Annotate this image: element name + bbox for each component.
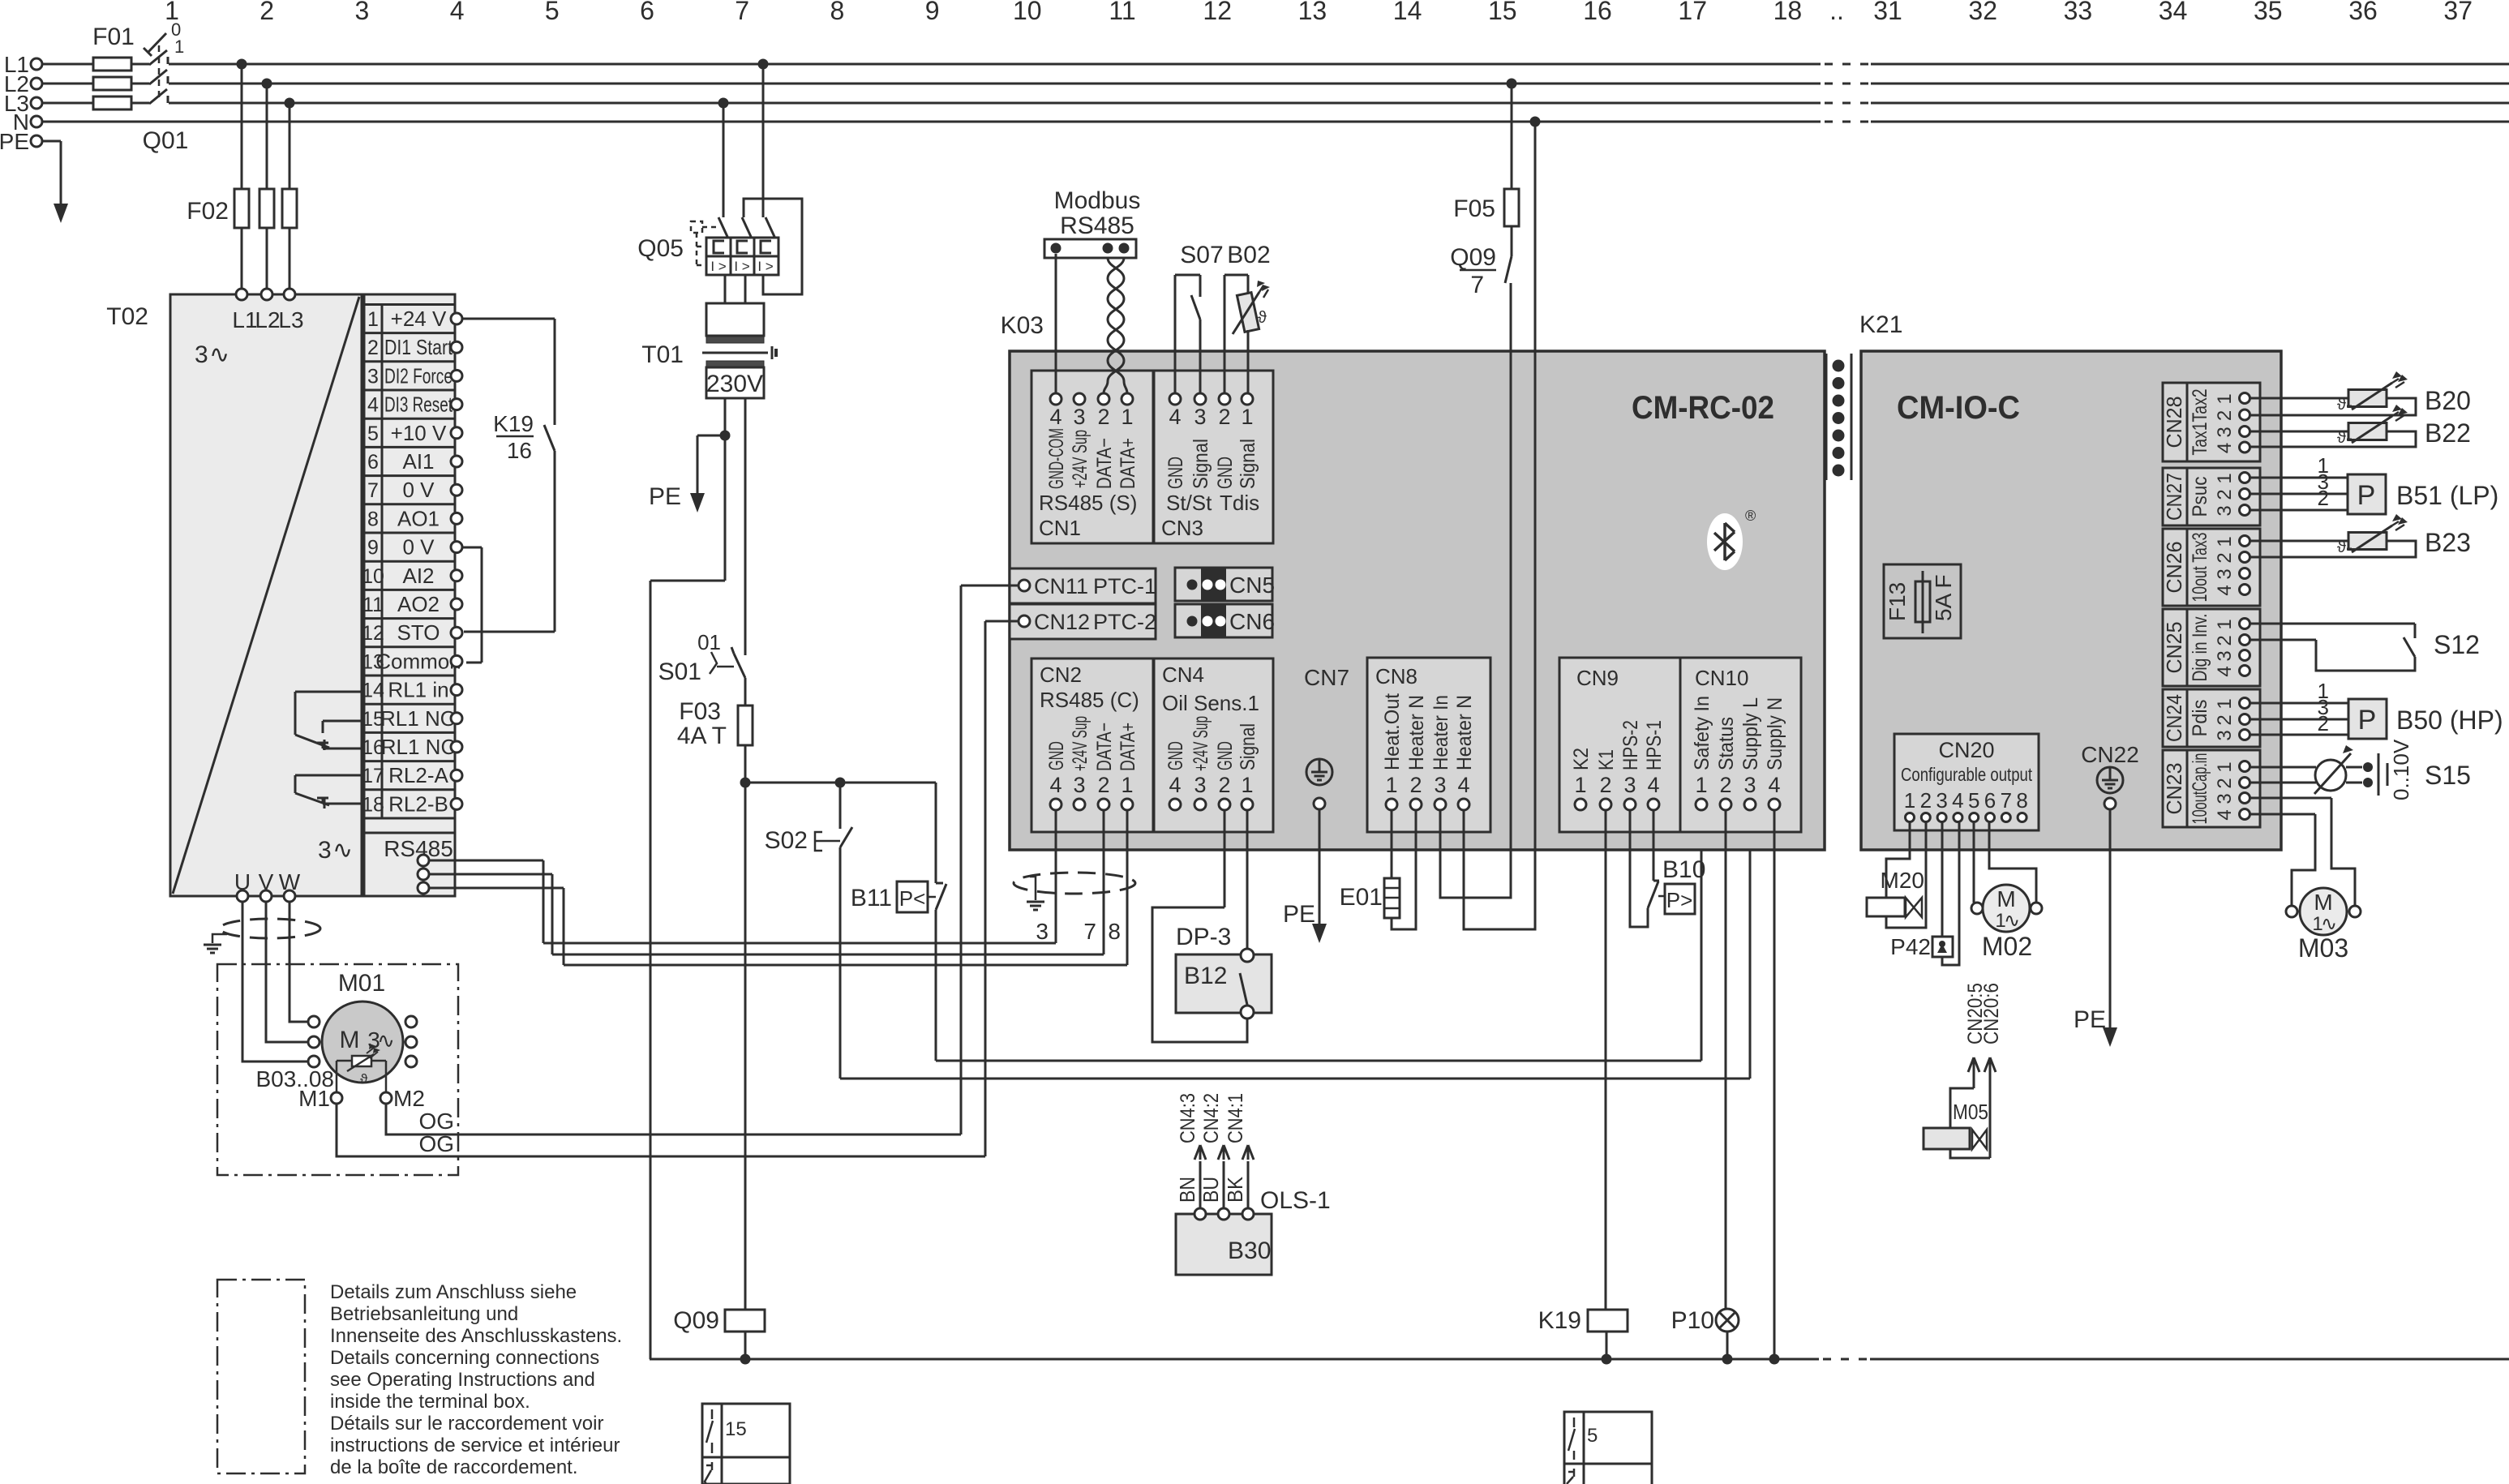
fuse F02 a	[234, 189, 249, 228]
motor M03 wiring CN23-3	[2250, 797, 2331, 800]
junction on L2	[262, 79, 272, 89]
breaker Q05 blades	[718, 217, 728, 238]
motor M1 M2 terminals	[331, 1092, 342, 1104]
svg-text:CN9: CN9	[1576, 666, 1619, 690]
svg-text:see Operating Instructions and: see Operating Instructions and	[330, 1369, 595, 1391]
svg-text:1: 1	[2214, 536, 2236, 547]
svg-text:B20: B20	[2425, 386, 2471, 415]
svg-text:Pdis: Pdis	[2189, 700, 2211, 737]
svg-text:4A T: 4A T	[677, 723, 727, 749]
wire P42 to CN20-4	[1942, 822, 1959, 965]
svg-text:K19: K19	[493, 411, 534, 436]
connector CN25 terminals	[2240, 619, 2250, 629]
svg-text:3: 3	[2214, 505, 2236, 516]
connector CN20 box	[1894, 734, 2039, 830]
svg-text:1: 1	[2214, 473, 2236, 483]
svg-text:3: 3	[1073, 773, 1085, 797]
CN7 earth symbol	[1306, 759, 1332, 785]
svg-text:de la boîte de raccordement.: de la boîte de raccordement.	[330, 1456, 578, 1478]
wire Q09 coil to bus	[744, 1332, 747, 1359]
fuse F01 L1	[93, 58, 131, 71]
junction Supply N bus	[1769, 1354, 1780, 1365]
svg-text:2: 2	[1218, 773, 1230, 797]
svg-text:2: 2	[2214, 552, 2236, 563]
wire CN8-4 Heater N to N bus	[1464, 122, 1535, 929]
coil Q09	[725, 1310, 765, 1332]
svg-text:1: 1	[1695, 773, 1707, 797]
connector CN28 block	[2163, 383, 2260, 461]
wire T01 secondary left	[724, 398, 727, 435]
svg-text:3: 3	[1194, 405, 1206, 429]
node L1 bus	[42, 63, 149, 66]
svg-text:K03: K03	[1001, 312, 1044, 339]
sensor B23 wiring	[2250, 540, 2348, 543]
svg-text:9: 9	[925, 0, 940, 25]
svg-text:..: ..	[1829, 0, 1844, 25]
svg-text:+24 V: +24 V	[391, 307, 447, 331]
transformer T01 primary	[706, 303, 764, 336]
svg-text:CN1: CN1	[1039, 516, 1081, 540]
M05 arrows	[1973, 1074, 1975, 1088]
motor enclosure dash-dot box	[217, 964, 458, 1175]
wire CN22 to PE arrow	[2109, 809, 2112, 1028]
svg-text:T01: T01	[641, 341, 684, 368]
pressure switch B11 box	[897, 881, 928, 912]
CN22 terminal	[2104, 798, 2116, 809]
svg-text:Betriebsanleitung und: Betriebsanleitung und	[330, 1303, 518, 1325]
motor M03 wiring CN23-4	[2250, 813, 2315, 816]
svg-text:5: 5	[1587, 1425, 1598, 1447]
solenoid M05 wiring	[1950, 1088, 1974, 1128]
svg-text:CN20: CN20	[1938, 738, 1994, 762]
svg-text:ϑ: ϑ	[1258, 309, 1267, 327]
T02 terminal rows	[364, 303, 455, 306]
svg-text:GND: GND	[1214, 741, 1237, 770]
svg-text:B02: B02	[1227, 242, 1270, 268]
svg-text:4: 4	[1952, 788, 1963, 813]
svg-text:230V: 230V	[706, 371, 763, 397]
svg-text:3: 3	[355, 0, 370, 25]
wire 7 to T02 RS485	[551, 874, 554, 954]
connector CN3 box	[1154, 371, 1273, 543]
CN7 terminal	[1314, 798, 1325, 809]
wire 8 to T02 RS485	[563, 888, 565, 965]
svg-text:B30: B30	[1228, 1237, 1271, 1264]
wire L3 to Q05	[718, 98, 729, 109]
wire CN10-2 Status to P10	[1725, 810, 1727, 1310]
svg-text:CN6: CN6	[1229, 609, 1275, 634]
wire CN8-3 Heater In to Q09	[1440, 283, 1511, 898]
wire B11 box link	[928, 896, 936, 899]
svg-text:PE: PE	[2074, 1006, 2106, 1033]
oil switch B12 contact	[1241, 949, 1254, 962]
connector CN20 terminals	[1906, 813, 1915, 822]
svg-text:M: M	[2314, 890, 2332, 915]
connector CN11 terminal	[1019, 580, 1030, 591]
svg-text:1: 1	[1241, 405, 1253, 429]
fuse F01 L2	[93, 77, 131, 90]
svg-text:∿: ∿	[2321, 913, 2337, 935]
setpoint S15 dots	[2363, 762, 2373, 772]
svg-text:CN3: CN3	[1161, 516, 1203, 540]
connector CN8 terminals	[1386, 799, 1397, 810]
svg-text:2: 2	[259, 0, 274, 25]
connector CN4 box	[1154, 658, 1273, 832]
svg-text:CN8: CN8	[1375, 664, 1417, 688]
motor M02 body	[1983, 885, 2030, 932]
svg-text:AI1: AI1	[402, 449, 434, 474]
connector CN2 box	[1031, 658, 1153, 832]
relay contact RL2	[295, 774, 362, 777]
wire F03 down	[744, 745, 747, 1359]
svg-text:RL1 NO: RL1 NO	[380, 706, 457, 731]
svg-text:32: 32	[1968, 0, 1997, 25]
junction K19 bus	[1602, 1354, 1612, 1365]
sensor B02 wiring	[1224, 275, 1226, 393]
svg-text:4: 4	[450, 0, 465, 25]
svg-text:DATA+: DATA+	[1117, 438, 1139, 489]
fuse F02 c	[282, 189, 297, 228]
svg-text:7: 7	[735, 0, 749, 25]
svg-text:4: 4	[1049, 405, 1061, 429]
svg-text:CN4:1: CN4:1	[1224, 1093, 1247, 1143]
wire CN2-1 DATA+ down	[1126, 810, 1129, 965]
svg-text:B51 (LP): B51 (LP)	[2396, 481, 2498, 510]
svg-text:S15: S15	[2425, 761, 2471, 790]
sensor B22	[2348, 423, 2387, 440]
svg-text:BN: BN	[1175, 1177, 1199, 1203]
relay contact RL1	[295, 691, 362, 693]
solenoid M20 valve	[1906, 898, 1914, 917]
svg-text:4: 4	[1457, 773, 1469, 797]
wire M2 to CN11 (OG upper)	[386, 1104, 961, 1134]
svg-text:RS485 (S): RS485 (S)	[1039, 491, 1137, 515]
svg-text:PTC-2: PTC-2	[1093, 610, 1156, 634]
wire B12 loop to CN4-2	[1152, 907, 1247, 1042]
svg-text:ϑ: ϑ	[360, 1071, 368, 1087]
svg-text:2: 2	[2318, 486, 2329, 510]
T02 RS485 terminals	[418, 855, 429, 866]
wire 0V to Common bracket	[462, 547, 482, 549]
connector CN26 block	[2163, 529, 2260, 606]
svg-text:L3: L3	[278, 307, 303, 332]
jumper CN6 contents	[1201, 606, 1226, 637]
svg-text:S07: S07	[1180, 242, 1223, 268]
svg-text:2: 2	[1097, 405, 1109, 429]
svg-text:Tax1Tax2: Tax1Tax2	[2189, 389, 2211, 456]
svg-text:18: 18	[362, 793, 384, 816]
connector CN11 box	[1010, 568, 1156, 603]
svg-text:GND-COM: GND-COM	[1045, 428, 1068, 489]
svg-text:2: 2	[1097, 773, 1109, 797]
svg-text:+24V Sup: +24V Sup	[1069, 430, 1092, 488]
svg-text:S01: S01	[658, 658, 701, 685]
svg-text:RS485: RS485	[1060, 212, 1134, 239]
svg-text:17: 17	[1678, 0, 1707, 25]
wire L2 drop to T02	[266, 84, 268, 290]
svg-text:0 V: 0 V	[402, 478, 435, 502]
sensor B23	[2348, 533, 2387, 550]
svg-text:4: 4	[1647, 773, 1659, 797]
breaker Q05 thermal hooks	[714, 241, 724, 253]
terminal circles L1 L2 L3 N PE	[31, 58, 42, 70]
connector CN23 block	[2163, 750, 2260, 827]
svg-text:2: 2	[1409, 773, 1422, 797]
wire +24V to K19 contact	[462, 318, 555, 320]
svg-text:Q01: Q01	[143, 127, 189, 154]
svg-text:1: 1	[1121, 773, 1133, 797]
svg-text:DATA+: DATA+	[1117, 723, 1139, 771]
svg-text:M01: M01	[338, 970, 385, 997]
svg-text:OG: OG	[418, 1131, 454, 1156]
twisted pair Modbus to CN1	[1104, 258, 1124, 393]
contact table K19	[1564, 1412, 1652, 1484]
connector CN3 terminals	[1169, 393, 1181, 405]
svg-text:3: 3	[2214, 427, 2236, 437]
svg-text:4: 4	[2214, 809, 2236, 820]
svg-text:16: 16	[507, 438, 532, 463]
oil switch B12 box	[1176, 954, 1272, 1013]
svg-text:9: 9	[367, 537, 379, 560]
heater E01 body	[1384, 878, 1400, 918]
T02 terminal strip body	[364, 294, 455, 896]
shield ground CN2	[1030, 877, 1036, 900]
svg-text:K2: K2	[1570, 748, 1593, 770]
switch S01	[734, 654, 745, 678]
wire S01 to F03	[744, 678, 747, 706]
svg-text:Details concerning connections: Details concerning connections	[330, 1347, 599, 1369]
svg-text:I >: I >	[757, 259, 773, 274]
svg-text:14: 14	[362, 680, 384, 702]
svg-text:1: 1	[1574, 773, 1586, 797]
svg-text:3: 3	[367, 365, 379, 388]
svg-text:M: M	[1996, 886, 2015, 911]
connector CN1 box	[1031, 371, 1153, 543]
switch S12 wiring	[2250, 623, 2415, 625]
svg-text:M: M	[340, 1027, 360, 1053]
wire M20 to CN20-2	[1886, 822, 1926, 928]
svg-text:+10 V: +10 V	[391, 421, 447, 445]
motor M02 terminals	[1971, 903, 1983, 914]
switch S02	[840, 827, 852, 847]
sensor B22 wiring	[2250, 431, 2348, 433]
junction on L1 at col2	[237, 59, 247, 70]
svg-text:Details zum Anschluss siehe: Details zum Anschluss siehe	[330, 1281, 577, 1303]
bottom supply bus	[650, 1358, 1819, 1361]
wire 3 to T02 RS485	[543, 860, 545, 943]
switch S07 wiring	[1174, 275, 1177, 393]
junction on L3	[285, 98, 295, 109]
wire CN20-1 to M20	[1886, 822, 1910, 898]
oil sensor B30 arrows	[1199, 1161, 1202, 1214]
svg-text:RL1 NC: RL1 NC	[381, 735, 456, 759]
svg-text:BU: BU	[1199, 1177, 1223, 1203]
svg-text:RL2-A: RL2-A	[388, 763, 448, 787]
svg-text:01: 01	[697, 630, 721, 654]
node N bus	[42, 121, 1821, 123]
svg-text:+24V Sup: +24V Sup	[1190, 716, 1212, 771]
svg-text:1: 1	[367, 308, 379, 331]
wire B11 to Safety In	[935, 910, 937, 1061]
svg-text:2: 2	[1920, 788, 1932, 813]
wire L1 to Q05	[758, 59, 769, 70]
svg-text:GND: GND	[1214, 457, 1237, 489]
shield ellipse UVW	[220, 919, 320, 938]
svg-text:RS485 (C): RS485 (C)	[1040, 688, 1139, 712]
svg-text:Supply N: Supply N	[1764, 697, 1786, 770]
wire S07 to CN3-3	[1199, 320, 1202, 393]
svg-text:5: 5	[545, 0, 560, 25]
svg-text:CN11: CN11	[1034, 574, 1088, 598]
svg-text:RL1 in: RL1 in	[388, 678, 448, 702]
connector CN1 terminals	[1050, 393, 1061, 405]
svg-text:4: 4	[1768, 773, 1780, 797]
connector CN28 terminals	[2240, 393, 2250, 404]
svg-text:6: 6	[367, 451, 379, 474]
pressure switch B10 box	[1665, 884, 1695, 914]
svg-text:3: 3	[1036, 919, 1049, 944]
svg-text:ϑ: ϑ	[2337, 429, 2346, 447]
svg-text:DI2 Force: DI2 Force	[384, 363, 452, 388]
svg-text:2: 2	[1599, 773, 1611, 797]
contact K19 16	[544, 425, 555, 451]
svg-text:P<: P<	[899, 886, 926, 911]
svg-text:Heater In: Heater In	[1430, 695, 1452, 770]
svg-text:4: 4	[2214, 666, 2236, 676]
wire PE branch	[697, 435, 725, 437]
svg-text:Tdis: Tdis	[1220, 491, 1259, 515]
motor M01 terminals right	[405, 1016, 417, 1027]
switch S07 contact	[1191, 295, 1200, 320]
svg-text:CN27: CN27	[2162, 473, 2186, 521]
breaker Q05 body	[706, 238, 778, 275]
svg-text:8: 8	[367, 508, 379, 530]
svg-text:I >: I >	[710, 259, 726, 274]
node L2 bus	[42, 83, 149, 85]
svg-text:Supply L: Supply L	[1739, 697, 1762, 770]
svg-text:CN7: CN7	[1304, 665, 1349, 690]
svg-text:1: 1	[2214, 619, 2236, 629]
svg-text:I >: I >	[734, 259, 749, 274]
T02 terminal strip number column divider	[381, 305, 384, 819]
svg-text:B50 (HP): B50 (HP)	[2396, 706, 2503, 735]
svg-text:CN22: CN22	[2081, 742, 2139, 767]
wire M1 to CN12 (OG lower)	[337, 1104, 985, 1156]
svg-text:Common: Common	[375, 649, 461, 673]
svg-text:B23: B23	[2425, 528, 2471, 557]
svg-text:1: 1	[174, 36, 184, 57]
transformer T01 core	[702, 352, 768, 354]
transformer T01 secondary bar	[706, 361, 764, 367]
sensor B02 thermistor	[1237, 293, 1259, 332]
wire to B11	[935, 783, 937, 883]
wire B10 link	[1658, 895, 1665, 898]
svg-text:16: 16	[1583, 0, 1612, 25]
connector CN4 terminals	[1169, 799, 1181, 810]
svg-text:F03: F03	[679, 698, 721, 725]
pressure switch B11 contact	[936, 884, 946, 910]
svg-text:Signal: Signal	[1237, 439, 1259, 489]
svg-text:Détails sur le raccordement vo: Détails sur le raccordement voir	[330, 1413, 603, 1435]
module K21 CM-IO-C body	[1861, 351, 2281, 850]
wire CN2-2 DATA- down	[1103, 810, 1105, 954]
motor M01 terminals left	[308, 1016, 320, 1027]
motor M01 body	[322, 1001, 403, 1083]
svg-text:K21: K21	[1859, 311, 1902, 338]
svg-text:F13: F13	[1885, 582, 1910, 621]
svg-text:Q09: Q09	[673, 1307, 719, 1334]
svg-text:3: 3	[318, 837, 332, 864]
svg-text:17: 17	[362, 765, 384, 787]
svg-text:T02: T02	[106, 303, 148, 330]
wire B02 to CN3-1	[1247, 330, 1250, 393]
contact table Q09	[702, 1404, 790, 1484]
svg-text:ϑ: ϑ	[2337, 396, 2346, 414]
junction P10 bus	[1722, 1354, 1733, 1365]
svg-text:K1: K1	[1595, 749, 1618, 770]
svg-text:2: 2	[1218, 405, 1230, 429]
svg-text:13: 13	[1298, 0, 1327, 25]
wire T01 secondary right	[744, 398, 747, 655]
svg-text:P: P	[2358, 705, 2377, 736]
Bluetooth logo	[1707, 513, 1743, 570]
jumper CN5 box	[1175, 568, 1272, 601]
junction T01 PE	[720, 431, 731, 441]
oil sensor B30 box	[1176, 1214, 1272, 1275]
svg-text:M20: M20	[1881, 868, 1924, 893]
connector CN24 terminals	[2240, 698, 2250, 709]
wire Q05 to T01 primary	[724, 275, 727, 303]
T02 input terminals	[236, 289, 247, 300]
monitor P42 box	[1932, 937, 1953, 957]
svg-text:0 V: 0 V	[402, 535, 435, 560]
svg-text:15: 15	[1488, 0, 1517, 25]
motor M03 body	[2300, 888, 2347, 935]
svg-text:2: 2	[2214, 778, 2236, 788]
lamp P10	[1716, 1309, 1739, 1332]
junction Q09 bus	[740, 1354, 751, 1365]
svg-text:DI3 Reset: DI3 Reset	[384, 392, 453, 417]
jumper CN6 box	[1175, 604, 1272, 637]
svg-text:2: 2	[2214, 635, 2236, 645]
svg-text:M02: M02	[1982, 932, 2032, 961]
T02 diagonal	[173, 297, 359, 894]
svg-text:35: 35	[2254, 0, 2283, 25]
svg-text:P42: P42	[1890, 934, 1931, 959]
T02 output terminals	[237, 890, 248, 902]
fuse F03	[738, 706, 753, 745]
transducer B51 wiring	[2250, 477, 2348, 479]
svg-text:3: 3	[1434, 773, 1446, 797]
svg-text:4: 4	[367, 394, 379, 417]
node L3 bus	[42, 102, 149, 105]
switch Q01 link and handle	[158, 45, 161, 99]
svg-text:1: 1	[1241, 773, 1253, 797]
wire F05 to Q09 contact	[1511, 226, 1513, 256]
setpoint S15 wiring	[2250, 766, 2316, 769]
wire L3 drop to T02	[289, 103, 291, 290]
breaker Q05 bracket wire	[744, 199, 802, 294]
wire CN20-6 to M02	[1989, 822, 2036, 903]
svg-text:5: 5	[367, 422, 379, 445]
wire P10 to bus	[1726, 1332, 1729, 1359]
svg-text:7: 7	[1470, 272, 1484, 298]
wire CN20-5 to M02	[1973, 822, 1975, 903]
wire PE stub with earth arrow	[42, 140, 61, 143]
svg-text:4: 4	[1049, 773, 1061, 797]
svg-text:2: 2	[1719, 773, 1731, 797]
svg-text:CN4:2: CN4:2	[1200, 1093, 1223, 1143]
